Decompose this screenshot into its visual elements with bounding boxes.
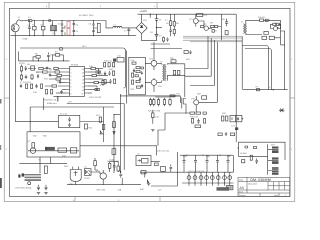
wire bridge bottom xyxy=(142,34,157,41)
resistor R3 xyxy=(173,14,175,36)
resistor R40 xyxy=(136,67,140,69)
capacitor C25 xyxy=(37,185,40,191)
title block col b xyxy=(278,182,280,190)
resistor R61 xyxy=(32,143,35,148)
svg-text:C27: C27 xyxy=(158,189,163,192)
wire to mosfet xyxy=(155,96,180,97)
capacitor C11 xyxy=(225,19,228,27)
varistor RV2 pink xyxy=(67,29,70,35)
svg-text:R18: R18 xyxy=(109,68,114,71)
resistor R51 xyxy=(202,96,207,99)
resistor R1 box xyxy=(33,26,36,30)
svg-text:C8: C8 xyxy=(159,18,162,21)
svg-text:S1: S1 xyxy=(18,16,21,19)
dark component RL1 xyxy=(45,147,55,150)
regulator body U3 xyxy=(70,170,81,182)
svg-text:R1: R1 xyxy=(32,23,35,26)
small circle filter xyxy=(28,182,31,185)
zone tick top 2 xyxy=(156,2,158,8)
resistor R41 xyxy=(136,71,140,73)
capacitor C10 xyxy=(169,28,172,36)
resistor R8 xyxy=(260,19,264,22)
transistor Q8 xyxy=(30,148,36,154)
dark comp 1 xyxy=(18,174,20,177)
row y91 parts a xyxy=(46,90,48,94)
right col parts x113 xyxy=(113,63,115,67)
bus runner 1 xyxy=(185,36,208,68)
diode D2b xyxy=(276,23,279,25)
svg-text:C9: C9 xyxy=(159,35,162,38)
wire bottom long xyxy=(130,185,178,186)
wire top of section xyxy=(19,60,70,62)
svg-text:1: 1 xyxy=(291,58,293,61)
wire vert right of T xyxy=(177,152,179,186)
wire right feed 2 xyxy=(245,49,271,90)
svg-text:~220V 50Hz ВХОД: ~220V 50Hz ВХОД xyxy=(14,186,32,189)
bridge rectifier BR1 xyxy=(136,22,147,33)
stamp box xyxy=(227,185,234,190)
svg-text:C7 R11 R12: C7 R11 R12 xyxy=(20,81,32,84)
resistor R62 xyxy=(58,148,67,152)
Q1 leads xyxy=(195,14,197,26)
wire top jog right xyxy=(100,21,113,28)
right cluster row2 b xyxy=(225,132,227,136)
svg-text:+310V: +310V xyxy=(140,10,148,13)
wire ic bottom left xyxy=(53,95,69,97)
row y91 parts c xyxy=(60,90,62,94)
bottom rail mid xyxy=(140,171,182,173)
svg-text:R52: R52 xyxy=(33,135,38,138)
svg-text:VT5: VT5 xyxy=(176,92,181,95)
right col part x113b xyxy=(113,71,115,75)
svg-text:Описание: Описание xyxy=(248,182,258,185)
junction stub xyxy=(113,114,114,115)
bus runner 4 xyxy=(216,42,218,102)
capacitor C33 xyxy=(255,159,258,164)
green mark 1 xyxy=(64,26,65,28)
svg-text:+12B: +12B xyxy=(109,158,114,161)
wire U3 to rail xyxy=(75,182,77,185)
wire mosfet col xyxy=(184,64,186,97)
bus wire 4 xyxy=(190,41,242,43)
wire pin7 chain xyxy=(62,89,66,91)
svg-text:IC5: IC5 xyxy=(70,183,74,186)
plug lead top xyxy=(15,22,18,25)
box x117 xyxy=(117,58,124,63)
part on x114 c xyxy=(112,149,116,155)
choke leads xyxy=(52,21,54,36)
svg-text:R24 R25 C16: R24 R25 C16 xyxy=(44,99,57,102)
capacitor C4b xyxy=(73,28,75,36)
wire vert right of box xyxy=(103,107,105,142)
wire bridge top to +rail xyxy=(141,14,143,22)
drive transformer T1 core xyxy=(163,64,166,81)
right cluster row2 a xyxy=(218,133,222,136)
capacitor C6a xyxy=(92,21,97,29)
resistor R19 xyxy=(57,74,62,76)
svg-text:PC817: PC817 xyxy=(84,177,91,180)
IC U1 pins left xyxy=(66,69,70,94)
part B7 xyxy=(132,73,134,77)
wire R1 top xyxy=(33,21,35,27)
relay box xyxy=(59,115,80,127)
wire bulk cap drop xyxy=(149,14,151,17)
wire encl rail xyxy=(28,150,79,152)
svg-text:R23: R23 xyxy=(131,88,136,91)
capacitor C29 xyxy=(169,165,172,173)
svg-text:C6: C6 xyxy=(89,22,92,25)
svg-text:1: 1 xyxy=(6,58,8,61)
capacitor C4a xyxy=(73,21,75,29)
plug pin 2 xyxy=(13,28,15,30)
ground G3 xyxy=(147,184,151,186)
dark part x113 xyxy=(113,59,116,62)
drive transformer T2 winding left xyxy=(243,24,244,34)
right col cap x110 xyxy=(109,79,111,84)
wire top secondary xyxy=(238,142,285,160)
svg-text:VT1: VT1 xyxy=(189,18,194,21)
scan smudge left 1 xyxy=(0,99,1,104)
wire top rail xyxy=(32,20,50,22)
extra col part a xyxy=(104,63,106,67)
wire Q5 to T1 xyxy=(157,81,161,83)
wire Q7 right xyxy=(199,101,218,103)
svg-text:6: 6 xyxy=(70,86,72,89)
transformer arrow xyxy=(138,160,141,162)
svg-text:R29: R29 xyxy=(197,93,202,96)
svg-text:R22: R22 xyxy=(186,58,191,61)
wire IC right 3 xyxy=(88,75,92,77)
svg-text:T1: T1 xyxy=(241,20,244,23)
svg-text:R26 R27 R28: R26 R27 R28 xyxy=(148,109,161,112)
svg-text:3: 3 xyxy=(46,5,48,8)
resistor R30 xyxy=(91,67,95,69)
drive transformer T2 winding right xyxy=(246,24,247,34)
junction relay feed xyxy=(30,121,31,122)
plug pin 1 xyxy=(13,26,15,28)
wire Q7 down xyxy=(195,105,197,112)
resistor R45 xyxy=(149,98,151,107)
svg-text:R30 C19: R30 C19 xyxy=(190,116,199,119)
zone tick top 1 xyxy=(48,2,50,8)
svg-text:F1: F1 xyxy=(28,16,31,19)
svg-text:ИП-1: ИП-1 xyxy=(82,45,88,48)
resistor R6 xyxy=(215,25,218,27)
choke L1 bars xyxy=(52,26,56,31)
wire IC right 2 xyxy=(88,71,96,73)
diode D3 xyxy=(264,31,268,34)
wire secondary left drop xyxy=(237,142,239,156)
wire right feed 1 xyxy=(242,46,268,90)
drive transformer T1 winding right xyxy=(165,65,166,81)
resistor R16 xyxy=(39,67,43,69)
vert cap x97 xyxy=(96,86,98,91)
wire IC right 3b xyxy=(96,75,108,77)
wire mains down xyxy=(14,36,16,122)
bridge diode mark xyxy=(140,26,142,28)
svg-text:T5: T5 xyxy=(38,159,41,162)
transistor Q1 xyxy=(193,19,198,24)
resistor R49 xyxy=(169,98,171,107)
bus wire 2 xyxy=(183,37,242,39)
scan smudge left 3 xyxy=(0,178,2,188)
wire pin6 chain xyxy=(45,85,66,87)
snubber box xyxy=(195,125,201,128)
green mark 2 xyxy=(64,32,65,34)
svg-text:Лист: Лист xyxy=(274,194,278,197)
box lower right a xyxy=(262,36,267,39)
resistor R31 xyxy=(96,71,100,73)
bus start cluster box xyxy=(184,51,188,54)
svg-text:Мод.: Мод. xyxy=(239,178,244,181)
resistor R55 xyxy=(204,119,206,124)
title block row line 3 xyxy=(238,192,290,194)
drive transformer T1 winding left xyxy=(162,65,163,81)
svg-text:L5 R45: L5 R45 xyxy=(240,152,247,155)
wire loop 1 xyxy=(80,146,157,156)
svg-text:~220B: ~220B xyxy=(22,38,29,41)
wire IC right 8 xyxy=(88,92,92,94)
capacitor C28 xyxy=(119,172,122,178)
capacitor C3a xyxy=(61,21,63,29)
U3 leads xyxy=(73,167,79,170)
wire bottom rail 2 xyxy=(50,35,100,37)
wire pin8 chain xyxy=(56,92,66,94)
wire Q1 right xyxy=(198,21,204,26)
svg-text:L3: L3 xyxy=(268,86,271,89)
box on wire y63 xyxy=(171,60,176,63)
cap B2 xyxy=(139,77,141,81)
sec cap 4 xyxy=(216,155,219,172)
resistor R18 xyxy=(43,71,48,73)
svg-text:VT7: VT7 xyxy=(27,140,32,143)
capacitor C13 xyxy=(46,67,48,70)
capacitor C12 xyxy=(47,52,50,61)
svg-text:C6: C6 xyxy=(36,71,39,74)
transistor Q2 xyxy=(204,26,208,30)
wire right drop long xyxy=(281,20,285,45)
part B3 xyxy=(132,62,136,64)
enclosure box lower xyxy=(27,132,80,157)
right col parts x109 a xyxy=(108,63,110,67)
MOSFET Q6 xyxy=(180,96,186,109)
svg-text:T2: T2 xyxy=(160,60,163,63)
svg-text:C7: C7 xyxy=(124,29,127,32)
wire filter top xyxy=(19,163,67,165)
svg-text:C3: C3 xyxy=(58,22,61,25)
resistor R4 xyxy=(201,26,204,28)
connector CN1 xyxy=(272,147,279,175)
enclosure B xyxy=(129,57,146,95)
part on rail xyxy=(49,20,51,21)
svg-text:R4: R4 xyxy=(27,63,30,66)
svg-text:C18: C18 xyxy=(155,116,160,119)
zone tick right xyxy=(290,97,295,99)
svg-text:C21: C21 xyxy=(231,124,236,127)
resistor R33 xyxy=(94,81,98,83)
wire pin1 chain xyxy=(28,68,66,70)
wire T right xyxy=(151,161,160,163)
svg-text:R4: R4 xyxy=(176,22,179,25)
capacitor C23 xyxy=(197,119,200,124)
part top right xyxy=(60,48,63,50)
vert part col x25 xyxy=(25,66,27,71)
right col part x114 xyxy=(114,79,116,83)
box below rail xyxy=(141,171,146,174)
transistor Q4 xyxy=(151,60,157,66)
zone tick bottom 2 xyxy=(159,196,161,201)
svg-text:+5B +12B: +5B +12B xyxy=(96,189,106,192)
rail junction dots xyxy=(29,20,94,36)
resistor R56 xyxy=(222,116,224,121)
row y85 parts d xyxy=(35,84,37,88)
wire IC right 1b xyxy=(95,68,103,70)
junction Q3 right xyxy=(277,27,278,28)
junction R9b xyxy=(269,20,270,21)
svg-text:1: 1 xyxy=(154,5,156,8)
U3 inner mark xyxy=(74,171,78,176)
svg-text:R22: R22 xyxy=(89,126,94,129)
resistor R52 xyxy=(190,112,195,114)
wire Q3 connections xyxy=(271,24,281,28)
vert part x103 xyxy=(102,79,104,85)
wire C2 top xyxy=(42,21,44,27)
svg-text:4: 4 xyxy=(70,79,72,82)
wire sec rail xyxy=(238,155,268,157)
wire T2 top right xyxy=(246,20,260,24)
svg-text:R7: R7 xyxy=(55,51,58,54)
resistor R54 xyxy=(192,119,194,124)
cap B1 xyxy=(141,71,143,75)
wire sec vert xyxy=(267,144,269,175)
svg-text:2: 2 xyxy=(100,5,102,8)
svg-text:C33 C34 C35 C36: C33 C34 C35 C36 xyxy=(188,170,205,173)
wire mid right horiz xyxy=(243,89,288,91)
resistor R20 xyxy=(56,78,61,80)
wire R13 drop xyxy=(33,57,38,61)
svg-text:R2: R2 xyxy=(166,22,169,25)
junction y61 a xyxy=(38,60,39,61)
wire below rail parts xyxy=(144,172,146,177)
elco row xyxy=(187,176,191,180)
resistor R63 xyxy=(44,166,47,173)
wire mid rail xyxy=(120,95,180,97)
drive transformer T2 core xyxy=(244,24,247,34)
resistor R50 series xyxy=(170,95,175,97)
wire T1 out 1 xyxy=(167,63,185,66)
wire pin5 chain xyxy=(60,82,66,84)
wire loop 2 xyxy=(158,113,186,146)
resistor R32 xyxy=(92,74,96,76)
extra col part c xyxy=(104,80,106,84)
enclosure top edge xyxy=(20,48,126,88)
wire pin3 chain xyxy=(50,75,66,77)
resistor R43 xyxy=(173,70,175,75)
border frame inner xyxy=(10,8,291,196)
diode D2 xyxy=(273,23,276,25)
transistor Q3 xyxy=(273,27,277,31)
capacitor C15 xyxy=(49,73,51,76)
row y85 parts b xyxy=(26,84,28,88)
transformer inner part xyxy=(142,159,149,164)
resistor R17 xyxy=(55,71,60,73)
resistor R46 xyxy=(153,98,155,107)
wire vert x43 xyxy=(43,98,45,110)
svg-text:R21: R21 xyxy=(96,114,101,117)
input filter ribbon xyxy=(25,174,42,180)
wire down left col xyxy=(29,107,31,132)
ground G1 xyxy=(37,192,40,194)
wire encl down 2 xyxy=(49,157,51,164)
fuse F2 on mid wire xyxy=(257,89,260,91)
relay cap 1 xyxy=(68,117,71,122)
dark part below xyxy=(235,127,238,130)
varistor RV1 pink xyxy=(67,21,70,27)
svg-text:C30: C30 xyxy=(206,155,211,158)
resistor R68 xyxy=(250,155,252,160)
svg-text:R8: R8 xyxy=(210,22,213,25)
title block outline xyxy=(238,177,290,196)
wire Q4 top xyxy=(153,42,155,70)
row y85 parts a xyxy=(20,84,22,88)
IC U1 pins right xyxy=(85,69,89,94)
svg-text:7: 7 xyxy=(70,89,72,92)
plug lead bottom xyxy=(11,32,50,36)
dark label box bottom xyxy=(217,187,230,191)
wire lower to drop xyxy=(274,37,280,39)
capacitor C16 xyxy=(59,80,61,84)
svg-text:R5: R5 xyxy=(35,53,38,56)
svg-text:R3 C5: R3 C5 xyxy=(19,62,26,65)
resistor R13 xyxy=(36,56,40,59)
wire IC right 5b xyxy=(98,82,110,84)
wire Q9 to rail xyxy=(102,183,104,185)
wire mid boundary xyxy=(67,103,125,105)
wire Q7 up xyxy=(195,96,197,100)
diode D6 xyxy=(99,131,103,134)
resistor R14 xyxy=(56,54,60,57)
box lower right b xyxy=(269,36,274,39)
svg-text:1: 1 xyxy=(70,68,72,71)
IC U1 PWM xyxy=(70,67,85,97)
svg-text:VT3: VT3 xyxy=(149,58,154,61)
wire top rail left xyxy=(24,20,28,22)
node mid caps xyxy=(156,27,157,28)
svg-text:ШИМ конт.: ШИМ конт. xyxy=(47,102,57,105)
wire encl down 3 xyxy=(39,157,41,164)
wire bottom rail left xyxy=(67,184,130,186)
part below rail a xyxy=(162,37,164,43)
zone tick bottom 1 xyxy=(74,196,76,201)
part on x114 b xyxy=(113,132,115,135)
wire R1 bottom xyxy=(33,30,35,36)
resistor R57 xyxy=(226,116,228,121)
stub x114 x119 xyxy=(114,114,120,116)
wire chain y48 xyxy=(151,48,183,50)
wire chain y44 xyxy=(151,43,171,45)
resistor R21 xyxy=(52,85,57,87)
scan smudge left 2 xyxy=(0,145,1,150)
vert part col x20 xyxy=(20,65,22,73)
wire Q4 to T1 xyxy=(157,63,161,64)
wire Q5 bottom xyxy=(153,78,155,92)
svg-text:3: 3 xyxy=(70,75,72,78)
wire enclosure side drop xyxy=(126,51,128,104)
svg-text:C10: C10 xyxy=(117,55,122,58)
part right of T xyxy=(155,163,159,166)
part below rail b xyxy=(166,38,168,42)
wire relay right xyxy=(80,121,104,123)
